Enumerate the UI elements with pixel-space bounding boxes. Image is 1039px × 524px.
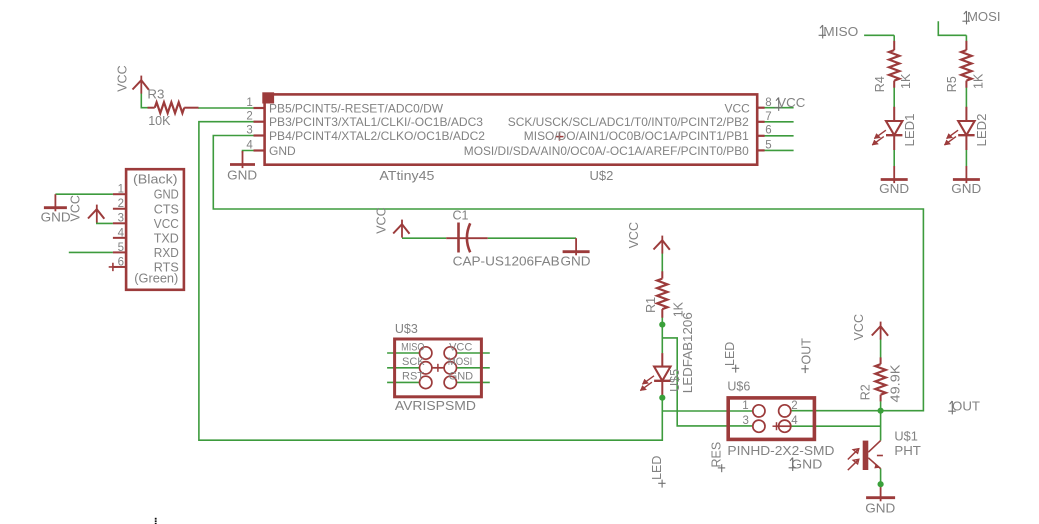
svg-text:1: 1: [742, 400, 748, 412]
svg-text:R3: R3: [147, 87, 164, 101]
svg-text:GND: GND: [879, 182, 909, 196]
svg-text:3: 3: [118, 213, 124, 225]
svg-text:10K: 10K: [148, 114, 171, 128]
svg-text:GND: GND: [865, 501, 895, 515]
svg-text:R4: R4: [873, 76, 887, 92]
svg-text:8: 8: [765, 97, 771, 109]
svg-text:LED: LED: [723, 342, 737, 366]
svg-text:OUT: OUT: [952, 399, 980, 414]
svg-text:PB5/PCINT5/-RESET/ADC0/DW: PB5/PCINT5/-RESET/ADC0/DW: [269, 101, 444, 115]
svg-text:U$1: U$1: [894, 428, 918, 443]
svg-text:PINHD-2X2-SMD: PINHD-2X2-SMD: [727, 443, 834, 458]
svg-text:MISO/DO/AIN1/OC0B/OC1A/PCINT1/: MISO/DO/AIN1/OC0B/OC1A/PCINT1/PB1: [524, 129, 749, 143]
svg-text:4: 4: [118, 227, 125, 239]
svg-text:3: 3: [246, 124, 252, 136]
svg-text:CTS: CTS: [154, 202, 179, 216]
svg-text:49.9K: 49.9K: [889, 364, 903, 403]
svg-text:R2: R2: [859, 384, 873, 400]
svg-text:1: 1: [246, 97, 252, 109]
svg-text:5: 5: [118, 242, 124, 254]
svg-text:(Black): (Black): [133, 173, 178, 187]
svg-text:LEDFAB1206: LEDFAB1206: [681, 312, 695, 393]
svg-text:(Green): (Green): [134, 272, 178, 286]
svg-text:C1: C1: [453, 208, 469, 222]
svg-text:1K: 1K: [899, 73, 913, 89]
svg-text:VCC: VCC: [116, 65, 130, 91]
svg-text:VCC: VCC: [724, 101, 750, 115]
svg-text:PB4/PCINT4/XTAL2/CLKO/OC1B/ADC: PB4/PCINT4/XTAL2/CLKO/OC1B/ADC2: [269, 129, 485, 143]
svg-text:VCC: VCC: [375, 207, 389, 233]
svg-text:U$3: U$3: [395, 322, 418, 336]
svg-text:2: 2: [246, 111, 252, 123]
svg-text:VCC: VCC: [154, 217, 179, 231]
svg-text:TXD: TXD: [154, 231, 179, 245]
svg-text:R5: R5: [945, 76, 959, 92]
svg-text:4: 4: [246, 139, 253, 151]
svg-text:VCC: VCC: [852, 314, 866, 340]
svg-text:GND: GND: [41, 210, 71, 224]
svg-text:MISO: MISO: [401, 342, 425, 354]
svg-text:2: 2: [118, 198, 124, 210]
svg-text:VCC: VCC: [627, 222, 641, 248]
svg-text:SCK: SCK: [402, 356, 425, 368]
svg-text:GND: GND: [951, 182, 981, 196]
svg-text:GND: GND: [449, 371, 474, 383]
svg-text:U$2: U$2: [590, 168, 614, 183]
svg-text:3: 3: [742, 415, 748, 427]
svg-text:RST: RST: [402, 371, 424, 383]
svg-text:5: 5: [765, 140, 771, 152]
svg-text:2: 2: [791, 400, 797, 412]
svg-text:VCC: VCC: [69, 195, 83, 221]
svg-text:AVRISPSMD: AVRISPSMD: [395, 398, 476, 413]
svg-text:MISO: MISO: [823, 24, 858, 39]
svg-text:7: 7: [765, 111, 771, 123]
svg-text:1K: 1K: [971, 73, 985, 89]
svg-text:CAP-US1206FAB: CAP-US1206FAB: [453, 255, 560, 269]
svg-text:6: 6: [118, 256, 124, 268]
svg-text:U$6: U$6: [727, 380, 750, 394]
svg-text:OUT: OUT: [800, 338, 814, 365]
svg-text:ATtiny45: ATtiny45: [379, 168, 434, 183]
svg-text:GND: GND: [561, 255, 591, 269]
svg-text:LED: LED: [650, 456, 664, 480]
svg-text:R1: R1: [644, 297, 658, 313]
svg-text:6: 6: [765, 125, 771, 137]
svg-text:SCK/USCK/SCL/ADC1/T0/INT0/PCIN: SCK/USCK/SCL/ADC1/T0/INT0/PCINT2/PB2: [508, 115, 749, 129]
svg-text:4: 4: [791, 415, 798, 427]
svg-text:LED2: LED2: [975, 113, 989, 146]
svg-text:PB3/PCINT3/XTAL1/CLKI/-OC1B/AD: PB3/PCINT3/XTAL1/CLKI/-OC1B/ADC3: [269, 115, 483, 129]
svg-text:1: 1: [118, 184, 124, 196]
svg-text:VCC: VCC: [449, 342, 472, 354]
svg-text:RES: RES: [710, 442, 724, 468]
svg-text:PHT: PHT: [894, 443, 921, 458]
svg-text:GND: GND: [227, 168, 257, 182]
svg-text:GND: GND: [269, 144, 296, 158]
svg-text:GND: GND: [154, 188, 179, 202]
svg-text:RXD: RXD: [154, 246, 179, 260]
svg-text:GND: GND: [791, 458, 822, 472]
svg-text:LED1: LED1: [903, 113, 917, 146]
svg-text:MOSI: MOSI: [967, 9, 1001, 24]
svg-text:MOSI/DI/SDA/AIN0/OC0A/-OC1A/AR: MOSI/DI/SDA/AIN0/OC0A/-OC1A/AREF/PCINT0/…: [464, 144, 749, 158]
svg-text:MOSI: MOSI: [448, 356, 473, 368]
